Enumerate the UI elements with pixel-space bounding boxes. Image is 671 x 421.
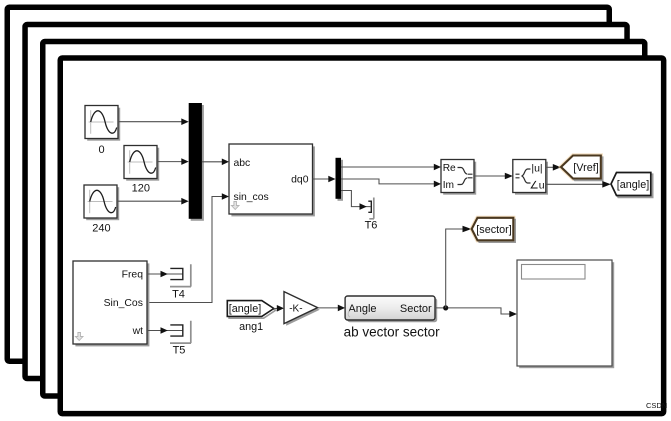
svg-text:dq0: dq0 xyxy=(291,175,309,186)
svg-text:T6: T6 xyxy=(365,220,378,232)
watermark xyxy=(646,401,667,410)
wire gain to ab vector sector xyxy=(318,305,346,312)
label T6 xyxy=(365,220,378,232)
svg-text:|u|: |u| xyxy=(531,162,542,174)
svg-text:Re: Re xyxy=(443,163,456,174)
svg-text:Sin_Cos: Sin_Cos xyxy=(104,298,143,309)
svg-text:Im: Im xyxy=(443,180,454,191)
terminator T5 xyxy=(170,321,191,343)
window frame 2 xyxy=(25,25,627,379)
real-imag to complex block U2 xyxy=(441,160,476,195)
mux M1 xyxy=(189,103,204,221)
svg-text:240: 240 xyxy=(92,222,110,234)
sine wave source block "120" xyxy=(124,146,159,181)
svg-text:[angle]: [angle] xyxy=(229,303,261,315)
svg-text:-K-: -K- xyxy=(289,304,302,315)
goto tag [angle] xyxy=(611,173,653,198)
window frame 4 (front, model canvas) xyxy=(60,58,663,414)
svg-text:∠u: ∠u xyxy=(529,179,544,191)
abc to dq0 transform block U1 xyxy=(229,144,315,216)
wire |u| to Vref tag xyxy=(546,164,561,171)
ab vector sector block U4 xyxy=(345,296,437,322)
scope display block xyxy=(517,260,614,368)
wire sector output to junction and display xyxy=(435,308,517,317)
demux D1 xyxy=(336,158,344,201)
source subsystem block (Freq / Sin_Cos / wt) xyxy=(73,261,149,346)
goto tag [Vref] xyxy=(561,156,603,181)
window frame 1 (backmost) xyxy=(7,7,609,361)
wire demux out3 to T6 xyxy=(341,191,371,210)
complex to magnitude-angle block U3 xyxy=(513,160,548,195)
wire sin_cos from Sin_Cos output xyxy=(147,193,229,302)
label 240 xyxy=(92,222,110,234)
wire Freq to T4 xyxy=(147,271,183,278)
wire dq0 to demux xyxy=(313,176,336,183)
wire junction to sector tag xyxy=(446,226,472,308)
label 0 xyxy=(98,144,104,156)
label T5 xyxy=(173,345,186,357)
window frame 3 xyxy=(43,42,645,397)
svg-text:Sector: Sector xyxy=(400,303,432,315)
svg-text:ab vector sector: ab vector sector xyxy=(344,324,441,339)
svg-text:[Vref]: [Vref] xyxy=(573,162,598,174)
wire ang1 to gain xyxy=(274,305,284,312)
junction node xyxy=(443,305,448,310)
svg-text:T4: T4 xyxy=(172,289,185,301)
wire demux out2 to Im xyxy=(341,179,441,187)
wire mux to abc input xyxy=(202,159,229,166)
svg-text:Angle: Angle xyxy=(348,303,376,315)
label ab vector sector xyxy=(344,324,441,339)
terminator T6 xyxy=(368,198,374,219)
wire demux out1 to Re xyxy=(341,164,441,171)
svg-text:sin_cos: sin_cos xyxy=(234,192,269,203)
label ang1 xyxy=(239,321,263,333)
svg-text:wt: wt xyxy=(132,326,144,337)
svg-text:[angle]: [angle] xyxy=(617,179,649,191)
wire sine240 to mux xyxy=(117,198,189,205)
goto tag [sector] xyxy=(472,218,515,242)
from tag [angle] (ang1) xyxy=(227,301,275,319)
wire wt to T5 xyxy=(147,327,183,334)
label T4 xyxy=(172,289,185,301)
svg-text:Freq: Freq xyxy=(122,269,144,280)
svg-text:120: 120 xyxy=(132,182,150,194)
svg-text:[sector]: [sector] xyxy=(476,224,511,236)
sine wave source block "0" xyxy=(85,106,120,141)
svg-text:T5: T5 xyxy=(173,345,186,357)
svg-text:ang1: ang1 xyxy=(239,321,263,333)
svg-text:0: 0 xyxy=(98,144,104,156)
label 120 xyxy=(132,182,150,194)
wire sine0 to mux xyxy=(118,118,189,125)
wire sine120 to mux xyxy=(157,158,189,165)
svg-text:abc: abc xyxy=(234,158,251,169)
svg-text:CSDN: CSDN xyxy=(646,401,667,410)
sine wave source block "240" xyxy=(84,185,119,220)
gain K1 (-K-) xyxy=(284,292,320,326)
terminator T4 xyxy=(170,264,191,286)
wire angle-u to angle tag xyxy=(546,181,611,188)
wire U2 to U3 xyxy=(474,173,513,180)
